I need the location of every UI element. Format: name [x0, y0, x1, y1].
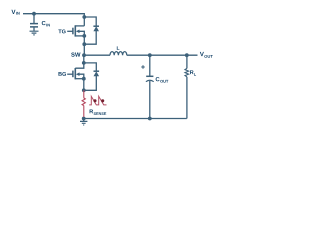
capacitor CIN plates — [30, 24, 38, 27]
transistor Q1 body arrow — [76, 30, 80, 34]
label L — [117, 46, 120, 49]
resistor RL bottom lead — [186, 77, 188, 119]
capacitor CIN lead bottom — [33, 27, 35, 31]
transistor Q2 drain stub — [75, 63, 84, 68]
transistor Q1 drain stub — [75, 25, 84, 27]
wire: SW down to Q2 — [83, 55, 85, 63]
junction node: RSENSE bottom / ground — [82, 117, 86, 121]
current waveform sample dot 2 — [101, 99, 104, 102]
transistor Q1 source stub — [75, 35, 84, 37]
junction node: COUT top — [148, 53, 152, 57]
transistor Q2 channel bar — [74, 68, 76, 79]
current waveform sample dot 1 — [93, 99, 96, 102]
transistor Q1 gate lead — [67, 30, 73, 32]
label VIN — [11, 10, 19, 15]
diode D2 cathode bar — [94, 70, 100, 72]
ground GND2 stem — [83, 119, 85, 122]
transistor Q2 gate lead — [67, 73, 73, 75]
ground GND1 — [30, 31, 39, 35]
diode D2 triangle — [94, 71, 100, 76]
transistor Q1 body stub — [79, 31, 85, 55]
ground GND2 — [80, 121, 87, 125]
capacitor COUT top plate — [146, 75, 153, 77]
diode D1 cathode bar — [93, 25, 99, 27]
transistor Q2 source stub — [75, 78, 84, 80]
label VOUT — [200, 52, 213, 58]
transistor Q2 body stub — [79, 74, 84, 90]
label BG — [58, 72, 66, 76]
transistor Q1 gate bar — [72, 28, 74, 35]
label CIN — [42, 21, 50, 26]
resistor RSENSE zigzag — [82, 98, 85, 106]
capacitor COUT bottom lead — [149, 81, 151, 119]
wire: D2 bottom branch — [84, 76, 97, 91]
wire: diode D1 top branch — [84, 17, 96, 26]
junction node: D1 top — [82, 15, 86, 19]
capacitor CIN lead top — [33, 14, 35, 24]
label RL — [190, 70, 196, 75]
junction node: Q2 source — [82, 77, 86, 81]
wire: VIN rail — [23, 14, 84, 17]
diode D1 triangle — [93, 26, 99, 31]
resistor RL top lead — [186, 55, 188, 68]
capacitor COUT plus sign — [141, 65, 145, 69]
label COUT — [156, 77, 169, 83]
junction node: COUT bottom — [148, 117, 152, 121]
label RSENSE — [90, 109, 107, 114]
transistor Q1 channel bar — [74, 25, 76, 36]
inductor L coil — [110, 52, 127, 56]
wire: inductor to VOUT — [127, 54, 198, 56]
junction node: D1 bottom — [82, 42, 86, 46]
resistor RSENSE lead bottom — [83, 106, 85, 118]
current waveform icon — [89, 96, 106, 105]
junction node: SW — [82, 53, 86, 57]
junction node: RL top — [185, 53, 189, 57]
transistor Q2 body arrow — [76, 72, 80, 76]
wire: Q1 drain vertical — [83, 17, 85, 26]
transistor Q2 gate bar — [72, 71, 74, 78]
junction node: VIN / CIN — [32, 12, 36, 16]
label TG — [58, 29, 65, 33]
resistor RSENSE lead top — [83, 90, 85, 98]
wire: bottom rail — [84, 118, 187, 120]
wire: D1 bottom branch — [84, 31, 96, 45]
capacitor COUT bottom plate — [146, 80, 154, 81]
wire: diode D2 top branch — [84, 63, 97, 72]
capacitor COUT top lead — [149, 55, 151, 76]
junction node: D2 top — [82, 61, 86, 65]
junction node: D2 bottom / RSENSE top — [82, 88, 86, 92]
resistor RL zigzag — [185, 68, 189, 76]
junction node: Q1 source — [82, 34, 86, 38]
wire: SW to inductor — [84, 54, 110, 56]
label SW — [71, 52, 80, 56]
